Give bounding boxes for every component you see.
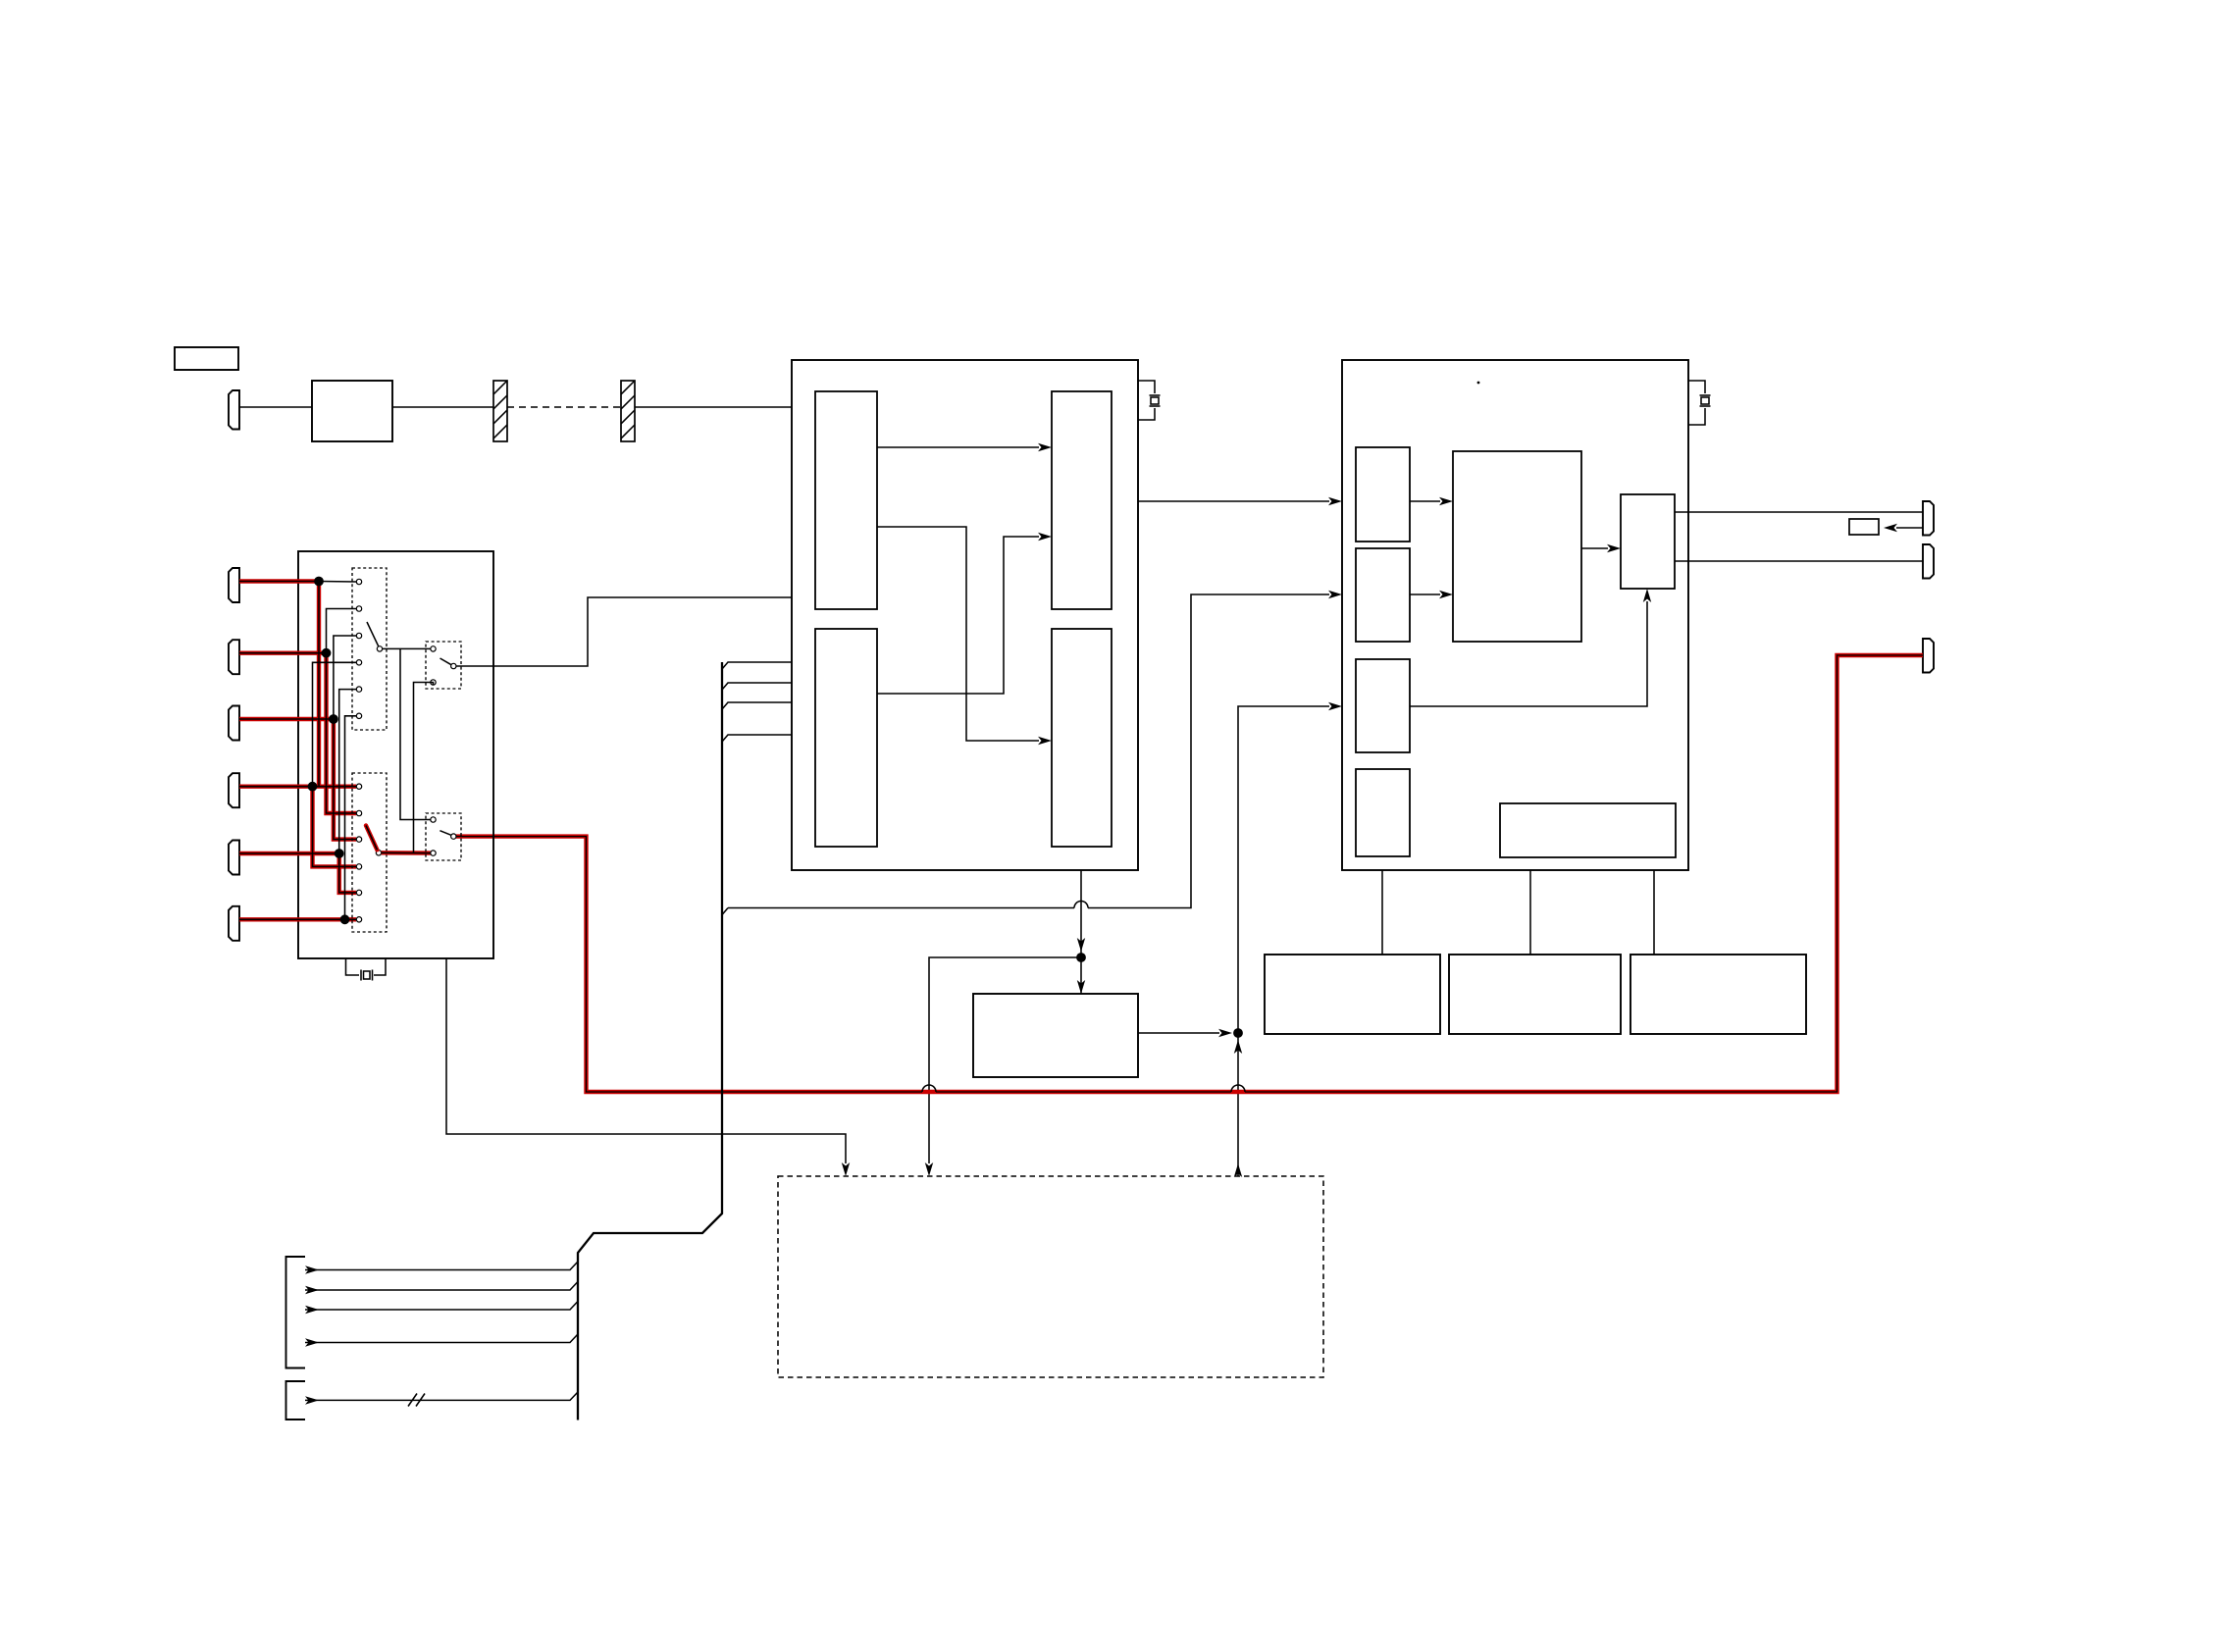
arrow into IC2 y720 <box>1328 702 1342 710</box>
IC2 output block <box>1621 494 1675 589</box>
connector CN305 <box>229 841 239 875</box>
red drop D4 to L4 <box>313 787 357 867</box>
contact U4 <box>356 660 361 665</box>
arrow down on servo wire <box>1077 938 1085 952</box>
wire IC1 to IC2 <box>1138 500 1329 502</box>
IC2 lower wide block <box>1500 803 1676 857</box>
arrow line 4 <box>305 1338 319 1346</box>
crystal X3 below switch block <box>346 958 387 981</box>
wire switch block to system block <box>446 958 846 1163</box>
connector CN301 <box>229 568 239 602</box>
bracket connector group 2 <box>286 1381 306 1420</box>
junction dot D3 <box>329 714 338 724</box>
box MOTOR1 <box>1265 955 1440 1034</box>
stub IC2 to box MOTOR1 <box>1381 870 1383 955</box>
contact L3 <box>356 837 361 842</box>
contact U5 <box>356 687 361 692</box>
stray printing speck <box>1477 382 1480 385</box>
red battery wires with black core <box>239 582 356 920</box>
hop of power core over reset line <box>922 1085 936 1092</box>
arrow line 3 <box>305 1306 319 1314</box>
wire SW3 common to IC1 <box>456 597 792 666</box>
sense wire D4 to U4 <box>313 662 357 786</box>
red drop D5 to L5 <box>339 853 356 893</box>
SW3 arm <box>440 658 451 665</box>
wire reg1 to core <box>1410 500 1440 502</box>
flat cable bus <box>578 662 722 1420</box>
main power line (red) <box>456 655 1923 1092</box>
bus branch to IC1 line1 <box>722 662 792 669</box>
red drop D3 to L3 <box>334 719 356 840</box>
IC1 (RF amp / signal processor) outline <box>792 360 1138 870</box>
arrow into IC2 y606 <box>1328 591 1342 598</box>
arrow into core y511 <box>1439 497 1453 505</box>
wire IC1 bottom to servo node <box>1080 870 1082 994</box>
sense wire D1 to U1 <box>319 581 356 584</box>
SW3 contact a <box>431 646 436 651</box>
wire J2 to IC1 <box>635 406 792 408</box>
contact L2 <box>356 810 361 815</box>
SW4 contact b <box>431 851 436 855</box>
connector CN202 <box>1923 544 1934 579</box>
contact U2 <box>356 606 361 611</box>
wire system block to N2 to IC2 <box>1238 706 1329 1176</box>
IC1 inner block A (top-left) <box>815 391 877 609</box>
arrow into node N2 <box>1218 1029 1232 1037</box>
stub IC2 to box MOTOR3 <box>1653 870 1655 955</box>
flexible cable (dashed) <box>507 406 621 408</box>
wire CN201 to damper <box>1896 527 1923 529</box>
riser sense line onto cable <box>722 908 728 915</box>
contact L4 <box>356 864 361 869</box>
connector CN201 <box>1923 501 1934 536</box>
wire reg3 to output block bottom <box>1410 601 1647 706</box>
junction node N2 <box>1233 1028 1243 1038</box>
wire N1 to reset line <box>929 957 1081 1163</box>
connector CN306 <box>229 906 239 941</box>
arrow into B top <box>1038 443 1052 451</box>
sense wire D3 to U3 <box>334 636 356 719</box>
box MOTOR2 <box>1449 955 1621 1034</box>
wire A to B <box>877 446 1039 448</box>
wire C to B <box>877 537 1039 694</box>
junction dot D6 <box>340 914 350 924</box>
bus branch to IC1 line2 <box>722 683 792 690</box>
arrow up into N2 <box>1234 1040 1242 1054</box>
SW3 contact b <box>431 680 436 685</box>
bus input line 5 <box>305 1392 578 1400</box>
junction dot D5 <box>335 849 344 858</box>
SW2 arm (red) <box>366 826 377 851</box>
wire CN305 to node D5 <box>239 852 341 855</box>
junction node N1 <box>1076 953 1086 962</box>
switch SW3 (dashed frame) <box>426 642 461 689</box>
arrow into servo box top <box>1077 980 1085 994</box>
contact L1 <box>356 784 361 789</box>
IC2 core block <box>1453 451 1581 642</box>
arrow into IC2 <box>1328 497 1342 505</box>
bus branch to IC1 line3 <box>722 702 792 709</box>
red drop D2 to L2 <box>327 653 357 813</box>
crystal X2 on IC2 <box>1688 381 1711 425</box>
arrow into core y606 <box>1439 591 1453 598</box>
board-edge connector (hatched) J1 <box>493 381 507 441</box>
arrow into D <box>1038 737 1052 745</box>
wire SW2 common to SW4 (red) <box>382 851 431 855</box>
wire SW1 common to SW3 <box>383 647 431 649</box>
box MOTOR3 <box>1630 955 1806 1034</box>
system control block (dashed) <box>778 1176 1323 1377</box>
damper component box <box>1849 519 1879 535</box>
servo box <box>973 994 1138 1077</box>
board-edge connector (hatched) J2 <box>621 381 635 441</box>
arrow up from system block <box>1234 1163 1242 1177</box>
bus input line 3 <box>305 1302 578 1311</box>
wire A to D <box>877 527 1039 741</box>
contact L6 <box>356 917 361 922</box>
hop of power core over N2 line <box>1231 1085 1245 1092</box>
bus input line 4 <box>305 1334 578 1343</box>
wire CN101 to pickup box <box>239 406 312 408</box>
bracket connector group 1 <box>286 1257 306 1368</box>
SW2 common contact <box>376 851 381 855</box>
arrow down into system block <box>925 1162 933 1176</box>
stub IC2 to box MOTOR2 <box>1529 870 1531 955</box>
contact U1 <box>356 579 361 584</box>
switch block outline <box>298 551 493 958</box>
contact L5 <box>356 890 361 895</box>
SW4 contact a <box>431 817 436 822</box>
wire IC2 output 1 <box>1675 511 1923 513</box>
wire reg2 to core <box>1410 594 1440 595</box>
IC2 input register 1 <box>1356 447 1410 542</box>
SW4 common <box>451 834 456 839</box>
switch SW4 (dashed frame) <box>426 813 461 860</box>
bus branch to IC1 line4 <box>722 735 792 742</box>
connector CN304 <box>229 773 239 807</box>
wire servo to node N2 <box>1138 1032 1219 1034</box>
hop over IC1 drop wire <box>1074 902 1088 908</box>
IC1 inner block C (bottom-left) <box>815 629 877 847</box>
branch down to SW4 <box>400 648 431 819</box>
label rectangle (drawing title block) <box>175 347 238 370</box>
arrow line 1 <box>305 1265 319 1273</box>
wire CN303 to node D3 <box>239 717 336 721</box>
IC2 input register 4 <box>1356 769 1410 856</box>
wire CN301 to node D1 <box>239 579 322 583</box>
arrow up into output block <box>1643 589 1651 602</box>
bus input line 2 <box>305 1282 578 1291</box>
wire CN306 to contact L6 <box>239 917 356 921</box>
multi-wire marks on line 5 <box>408 1394 425 1407</box>
SW4 arm <box>440 831 450 836</box>
junction dot D2 <box>322 648 332 658</box>
wire SW3 contact b to SW2 output <box>414 683 434 853</box>
arrow into B <box>1038 533 1052 541</box>
block optical pickup <box>312 381 392 441</box>
sense wire D6 to U6 <box>345 716 357 920</box>
IC1 inner block D (bottom-right) <box>1052 629 1112 847</box>
junction dot D4 <box>308 782 318 792</box>
sense wire D5 to U5 <box>339 690 356 853</box>
arrow line 2 <box>305 1286 319 1294</box>
IC2 (system controller) outline <box>1342 360 1688 870</box>
wire bus to IC2 (sense line) <box>728 594 1329 908</box>
sense wire D2 to U2 <box>327 609 357 653</box>
wire CN304 to contact L1 <box>239 785 356 789</box>
contact U3 <box>356 633 361 638</box>
wire pickup to board connector <box>392 406 493 408</box>
crystal X1 on IC1 <box>1138 381 1161 420</box>
IC2 input register 3 <box>1356 659 1410 752</box>
arrow left into damper <box>1884 524 1897 532</box>
connector CN203 <box>1923 639 1934 673</box>
SW1 arm <box>367 622 379 646</box>
arrow line 5 <box>305 1396 319 1404</box>
contact U6 <box>356 713 361 718</box>
SW3 common <box>451 663 456 668</box>
wire IC2 output 2 <box>1675 560 1923 562</box>
IC2 input register 2 <box>1356 548 1410 642</box>
arrow into output block <box>1607 544 1621 552</box>
bus input line 1 <box>305 1262 578 1270</box>
wire CN302 to node D2 <box>239 651 328 655</box>
junction dot D1 <box>314 577 324 587</box>
switch SW2 (dashed frame) <box>352 773 387 932</box>
connector CN303 <box>229 706 239 741</box>
switch SW1 (dashed frame) <box>352 568 387 730</box>
black cores of battery wires <box>239 582 356 920</box>
connector CN302 <box>229 640 239 674</box>
arrow down into system block left <box>842 1162 850 1176</box>
IC1 inner block B (top-right) <box>1052 391 1112 609</box>
red drop D1 to C4 wire <box>317 582 321 787</box>
SW1 common contact <box>377 646 382 651</box>
connector CN101 (top left plug) <box>229 390 239 430</box>
wire core to output block <box>1581 547 1608 549</box>
